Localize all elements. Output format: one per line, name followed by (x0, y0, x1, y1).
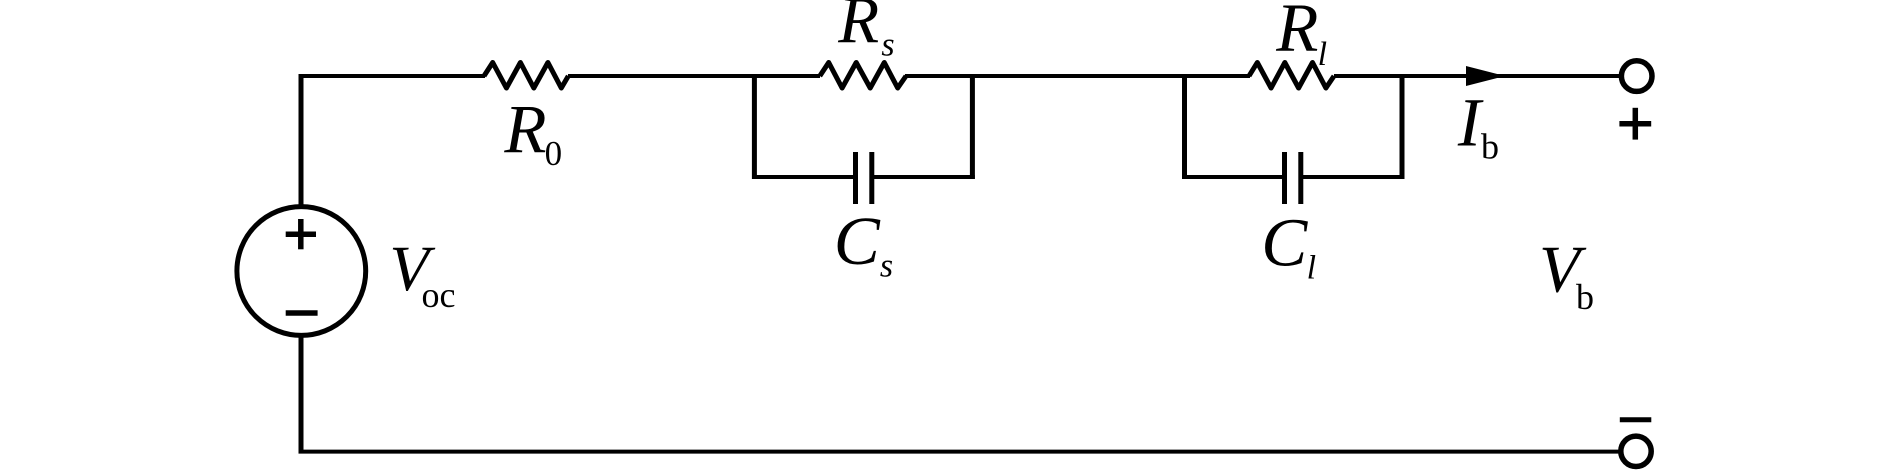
resistor Rs (820, 0, 906, 88)
plus sign at terminal (1619, 108, 1651, 140)
current arrow Ib (1457, 66, 1505, 166)
svg-text:C: C (1261, 204, 1308, 280)
svg-text:s: s (880, 247, 893, 284)
svg-text:R: R (1275, 0, 1318, 66)
wire top horizontal segment 2 (R0 to Rs) (568, 74, 820, 78)
svg-text:b: b (1481, 126, 1499, 166)
voltage source Voc (237, 207, 456, 336)
svg-text:l: l (1307, 250, 1316, 287)
RC2 bottom branch right wire (1303, 175, 1405, 179)
svg-text:0: 0 (545, 134, 563, 173)
negative terminal node (1621, 436, 1651, 466)
svg-text:I: I (1457, 85, 1484, 161)
RC1 right vertical wire (970, 74, 975, 179)
wire top horizontal segment 1 (Voc top to R0) (301, 74, 485, 78)
wire top horizontal segment 3 (Rs to Rl) (905, 74, 1250, 78)
wire top horizontal segment 4 (Rl to + terminal) (1334, 74, 1621, 78)
svg-text:l: l (1318, 36, 1327, 73)
RC1 bottom branch left wire (752, 175, 853, 179)
RC2 bottom branch left wire (1182, 175, 1282, 179)
resistor Rl (1249, 0, 1334, 88)
svg-text:oc: oc (422, 275, 456, 315)
RC1 bottom branch right wire (874, 175, 975, 179)
positive terminal node (1621, 61, 1652, 92)
left vertical wire (Voc to bottom wire) (299, 334, 304, 453)
battery voltage label Vb (1539, 233, 1594, 318)
capacitor Cl (1261, 152, 1316, 287)
svg-text:C: C (834, 203, 881, 279)
capacitor Cs (834, 152, 893, 284)
RC1 left vertical wire (752, 74, 757, 179)
resistor R0 (484, 63, 568, 174)
RC2 left vertical wire (1182, 74, 1187, 179)
RC2 right vertical wire (1400, 74, 1405, 179)
bottom return wire (299, 450, 1619, 454)
minus sign at terminal (1620, 417, 1652, 422)
svg-text:s: s (881, 27, 894, 64)
svg-text:R: R (503, 92, 546, 168)
left vertical wire (top wire to Voc) (299, 74, 304, 208)
svg-text:R: R (837, 0, 879, 57)
svg-text:b: b (1576, 277, 1594, 317)
